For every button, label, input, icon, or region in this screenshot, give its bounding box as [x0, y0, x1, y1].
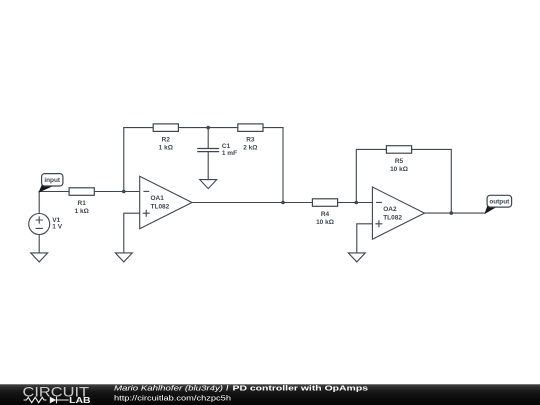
wire OA1 noninverting jog — [124, 213, 140, 253]
output flag — [485, 195, 511, 213]
svg-text:10 kΩ: 10 kΩ — [390, 166, 408, 173]
wire input line — [39, 191, 140, 193]
svg-text:10 kΩ: 10 kΩ — [316, 219, 334, 226]
resistor R2 — [153, 124, 178, 151]
wire C1 top stem — [207, 128, 209, 149]
CircuitLab logo — [23, 384, 91, 405]
wire top feedback horizontal — [124, 127, 283, 129]
svg-text:R5: R5 — [395, 158, 404, 165]
ground (below OA1 noninverting) — [115, 253, 132, 262]
capacitor C1 — [197, 143, 237, 157]
wire V1 bottom lead — [38, 235, 40, 253]
svg-text:OA1: OA1 — [151, 195, 165, 202]
svg-text:R4: R4 — [321, 211, 330, 218]
svg-text:1 kΩ: 1 kΩ — [75, 208, 89, 215]
junction node (R1 / feedback tap) — [122, 190, 126, 194]
wire OA2 output line — [425, 212, 486, 214]
junction node (R5 feedback tap) — [355, 201, 359, 205]
svg-text:input: input — [44, 177, 60, 184]
resistor R1 — [69, 188, 94, 215]
junction node (R3 branch to output line) — [281, 201, 285, 205]
wire C1 bottom stem — [207, 152, 209, 180]
op-amp OA2 — [372, 187, 424, 239]
ground (below V1) — [31, 253, 48, 262]
resistor R5 — [386, 146, 411, 173]
svg-text:1 mF: 1 mF — [222, 150, 237, 157]
ground (below OA2 noninverting) — [348, 253, 365, 262]
wire V1 top lead — [38, 192, 40, 214]
svg-text:LAB: LAB — [69, 395, 91, 405]
wire R5 feedback loop — [356, 149, 451, 213]
svg-text:OA2: OA2 — [383, 206, 397, 213]
svg-text:output: output — [489, 199, 510, 206]
op-amp OA1 — [140, 176, 192, 228]
ground (below C1) — [200, 180, 217, 189]
svg-text:TL082: TL082 — [383, 214, 402, 221]
svg-text:C1: C1 — [222, 143, 231, 150]
wire OA1 output line — [192, 202, 372, 204]
svg-text:Mario Kahlhofer (blu3r4y): Mario Kahlhofer (blu3r4y) — [114, 383, 224, 392]
wire feedback right vertical — [282, 128, 284, 203]
svg-text:http://circuitlab.com/chzpc5h: http://circuitlab.com/chzpc5h — [114, 393, 231, 402]
wire OA2 noninverting jog — [357, 224, 373, 253]
svg-text:PD controller with OpAmps: PD controller with OpAmps — [233, 383, 369, 392]
svg-text:R2: R2 — [162, 136, 171, 143]
svg-text:2 kΩ: 2 kΩ — [243, 144, 257, 151]
input flag — [39, 174, 63, 192]
svg-text:R1: R1 — [78, 200, 87, 207]
wire feedback left vertical — [123, 128, 125, 192]
junction node (R5 to OA2 output) — [450, 211, 454, 215]
voltage source V1 — [29, 214, 63, 235]
svg-text:1 V: 1 V — [52, 223, 62, 230]
resistor R4 — [312, 199, 337, 226]
svg-text:TL082: TL082 — [151, 203, 170, 210]
resistor R3 — [238, 124, 263, 151]
svg-text:1 kΩ: 1 kΩ — [159, 144, 173, 151]
junction node (C1 tap) — [206, 126, 210, 130]
svg-text:R3: R3 — [246, 136, 255, 143]
credit line — [114, 383, 368, 402]
